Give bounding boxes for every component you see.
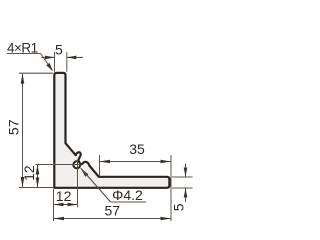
dimension 5 top: right arrowhead xyxy=(67,56,77,60)
svg-text:57: 57 xyxy=(105,202,121,218)
dimension 57 left: arrow down xyxy=(21,177,25,188)
dimension 57 left: arrow up xyxy=(21,73,25,84)
centerline horizontal through hole xyxy=(36,164,82,166)
dimension 5 right: bottom arrowhead xyxy=(184,188,188,198)
dimension 12 bottom: right arrowhead xyxy=(68,203,78,207)
dimension 5 right: extension line top xyxy=(172,176,193,178)
dimension 12 left: dimension line xyxy=(37,165,39,188)
dimension 12 bottom: dimension line xyxy=(54,204,78,206)
dimension 5 right: extension line bottom xyxy=(172,187,193,189)
svg-text:35: 35 xyxy=(129,141,145,157)
hole circle Phi4.2 xyxy=(73,161,80,168)
dimension 57 left: dimension line xyxy=(22,73,24,187)
svg-text:Φ4.2: Φ4.2 xyxy=(112,187,143,203)
dimension 5 top: left arrowhead xyxy=(45,56,55,60)
part outline L-angle with corner gusset xyxy=(54,73,169,188)
svg-text:57: 57 xyxy=(5,119,21,135)
leader Phi4.2: underline xyxy=(111,201,147,203)
dimension 5 top: extension line right xyxy=(66,52,68,72)
dimension 57 bottom: right arrowhead xyxy=(161,217,172,221)
leader 4xR1: arrowhead xyxy=(46,63,53,71)
dimension 5 top: extension line left xyxy=(54,52,56,72)
leader 4xR1: underline xyxy=(7,53,41,55)
centerline vertical through hole xyxy=(77,160,79,208)
dimension 57 bottom: left arrowhead xyxy=(54,217,65,221)
dimension 12 left: arrow down xyxy=(36,178,40,188)
dimension 12 left: arrow up xyxy=(36,165,40,175)
dimension 57 bottom: dimension line xyxy=(54,218,172,220)
dimension 12 bottom: extension line left shared with 57 bottom xyxy=(53,189,55,221)
dimension 57 left: extension line bottom xyxy=(19,187,53,189)
svg-text:12: 12 xyxy=(21,165,37,181)
dimension 35: dimension line xyxy=(100,161,172,163)
svg-text:5: 5 xyxy=(55,41,63,57)
leader Phi4.2: leader line xyxy=(81,168,111,202)
dimension 12 bottom: left arrowhead xyxy=(54,203,64,207)
dimension 5 right: top arrow line xyxy=(185,164,187,178)
svg-text:5: 5 xyxy=(171,203,187,211)
svg-text:12: 12 xyxy=(56,188,72,204)
dimension 5 right: top arrowhead xyxy=(184,168,188,178)
leader 4xR1: leader line xyxy=(41,54,52,71)
dimension 35: right arrowhead xyxy=(161,160,172,164)
dimension 57 left: extension line top xyxy=(19,72,53,74)
dimension 35: left arrowhead xyxy=(100,160,111,164)
dimension 5 top: right arrow line xyxy=(67,56,83,58)
leader Phi4.2: arrowhead at hole xyxy=(81,168,89,177)
dimension 35: extension line left xyxy=(99,155,101,176)
dimension 35: extension line right shared with 57 bottom xyxy=(170,155,172,221)
dimension 5 top: left arrow line xyxy=(41,56,54,58)
dimension 5 right: bottom arrow line xyxy=(185,188,187,202)
